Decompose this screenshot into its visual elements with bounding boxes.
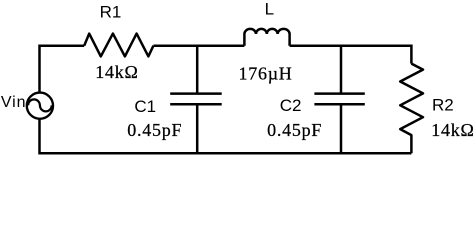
svg-text:0.45pF: 0.45pF: [127, 120, 182, 140]
svg-text:176µH: 176µH: [238, 63, 292, 83]
svg-text:C1: C1: [134, 97, 156, 116]
svg-text:C2: C2: [280, 96, 302, 115]
svg-text:14kΩ: 14kΩ: [431, 120, 474, 140]
svg-text:14kΩ: 14kΩ: [95, 62, 138, 82]
svg-text:L: L: [265, 0, 274, 18]
svg-text:R2: R2: [432, 95, 454, 114]
svg-text:0.45pF: 0.45pF: [267, 120, 322, 140]
svg-text:Vin: Vin: [1, 94, 27, 111]
svg-text:R1: R1: [100, 2, 122, 21]
